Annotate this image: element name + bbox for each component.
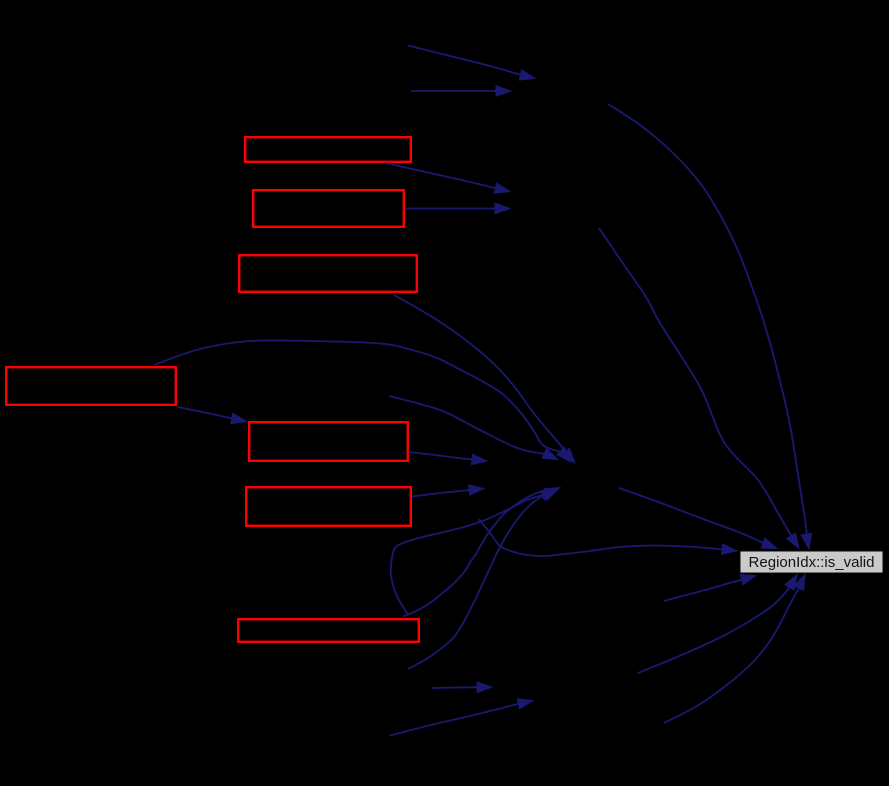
wire hidden top caller 1 to hidden node N1 — [408, 46, 535, 81]
wire box E to hidden node N3 — [409, 452, 488, 465]
node caller box G (truncated) — [238, 619, 419, 642]
wire hidden top caller 2 to hidden node N1 — [411, 86, 511, 97]
wire hidden node N1 to RegionIdx::is_valid — [608, 104, 812, 549]
node caller box C (truncated) — [239, 255, 417, 292]
node caller box A (truncated) — [245, 137, 411, 162]
wire box D arc to hidden node N3 — [154, 340, 571, 462]
wire hidden bottom caller to hidden node N7 — [432, 682, 492, 693]
node caller box F (truncated) — [246, 487, 411, 526]
wire box A to hidden node N2 — [386, 163, 511, 193]
wire box C to hidden node N3 — [394, 295, 575, 463]
wire box G to hidden node N4 (second) — [391, 490, 556, 616]
svg-text:RegionIdx::is_valid: RegionIdx::is_valid — [749, 554, 875, 571]
wire hidden bottom caller to hidden node N8 — [390, 699, 533, 736]
wire hidden node N7 to RegionIdx::is_valid — [638, 575, 797, 674]
wire hidden node N2 to RegionIdx::is_valid — [599, 228, 799, 549]
node caller box B (truncated) — [253, 190, 404, 227]
wire box G to hidden node N4 (first) — [404, 488, 561, 617]
node caller box E (truncated) — [249, 422, 408, 461]
wire hidden node N4 to RegionIdx::is_valid — [619, 488, 777, 549]
wire box F to hidden node N4 — [412, 485, 484, 497]
node caller box D (truncated) — [6, 367, 176, 405]
wire hidden node X1 to hidden node N3 — [389, 396, 558, 460]
wire hidden node N5 to RegionIdx::is_valid — [664, 575, 756, 602]
node RegionIdx::is_valid (current function, grey) — [740, 551, 883, 573]
wire box D to box E — [178, 407, 247, 424]
wire box B to hidden node N2 — [406, 203, 510, 214]
wire hidden node N6 to hidden node N4 — [408, 489, 558, 670]
wire hidden node T to RegionIdx::is_valid — [479, 519, 737, 556]
wire hidden node N8 to RegionIdx::is_valid — [664, 575, 805, 724]
